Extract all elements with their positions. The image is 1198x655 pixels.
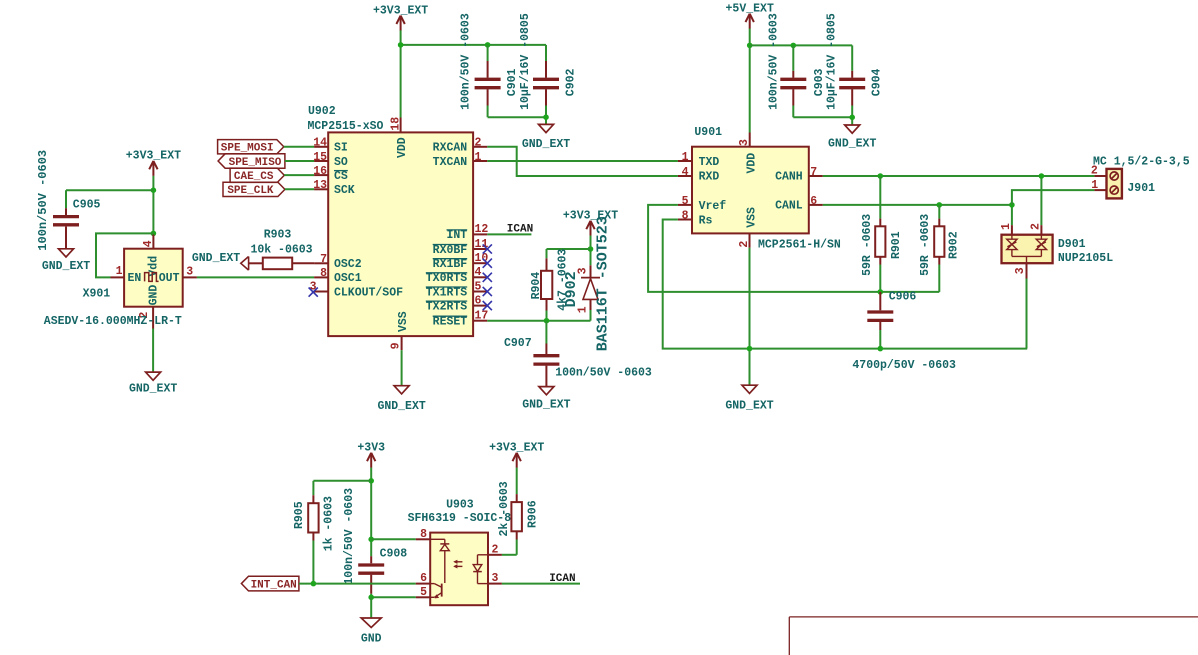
capacitor C903 <box>767 13 825 117</box>
svg-text:RX1BF: RX1BF <box>433 258 468 271</box>
resistor R901 <box>861 176 903 292</box>
junction C904 bottom <box>849 115 855 121</box>
svg-text:7: 7 <box>320 253 327 266</box>
resistor R905 <box>293 495 335 583</box>
wire SPE_MISO to SO <box>285 160 314 162</box>
svg-text:VDD: VDD <box>396 137 409 158</box>
svg-text:VDD: VDD <box>746 153 759 174</box>
junction R905 / INT_CAN row <box>311 581 317 587</box>
svg-text:10µF/16V -0805: 10µF/16V -0805 <box>825 13 838 110</box>
svg-text:RESET: RESET <box>433 316 468 329</box>
svg-text:13: 13 <box>313 179 327 192</box>
junction +5V rail <box>747 43 753 49</box>
svg-text:ICAN: ICAN <box>507 224 533 236</box>
svg-text:5: 5 <box>420 586 427 599</box>
svg-text:100n/50V -0603: 100n/50V -0603 <box>555 367 652 380</box>
wire +5V riser to U901 VDD <box>749 29 751 133</box>
svg-text:TXD: TXD <box>699 156 720 169</box>
wire D901 pin3 to Rs route <box>1026 279 1028 349</box>
wire INT_CAN to pin6 <box>299 583 416 585</box>
wire SPE_CLK to SCK <box>285 188 314 190</box>
net label ICAN (opto) <box>549 573 575 585</box>
global label SPE_MISO <box>218 154 285 169</box>
wire pin3 to ICAN <box>502 583 580 585</box>
svg-text:NUP2105L: NUP2105L <box>1058 252 1113 265</box>
resistor R906 <box>498 481 539 555</box>
svg-text:GND_EXT: GND_EXT <box>377 400 425 413</box>
wire X901 OUT to OSC1 <box>197 276 314 278</box>
wire C903-C904 bottom rail <box>793 116 852 118</box>
svg-text:U901: U901 <box>694 126 722 139</box>
wire CANH row <box>823 175 1095 177</box>
wire RXCAN to RXD <box>487 147 678 176</box>
svg-text:SFH6319 -SOIC-8: SFH6319 -SOIC-8 <box>408 512 512 525</box>
svg-text:3: 3 <box>492 572 499 585</box>
svg-text:10k -0603: 10k -0603 <box>250 244 312 257</box>
diode D902 BAS116T <box>577 265 600 320</box>
junction C908 bottom / pin5 <box>368 595 374 601</box>
junction +3V3_EXT / C905 <box>151 187 157 193</box>
wire CANL row <box>823 204 1012 206</box>
svg-text:SCK: SCK <box>334 184 355 197</box>
svg-text:6: 6 <box>475 294 482 307</box>
svg-text:8: 8 <box>320 267 327 280</box>
resistor R902 <box>919 205 960 292</box>
svg-text:GND_EXT: GND_EXT <box>725 400 773 413</box>
resistor R904 <box>530 249 570 321</box>
wire to GND <box>370 597 372 618</box>
connector J901 <box>1091 165 1122 199</box>
label ASEDV-16.000MHZ-LR-T <box>44 315 182 328</box>
svg-text:U902: U902 <box>308 105 336 118</box>
label NUP2105L <box>1058 252 1113 265</box>
svg-text:C904: C904 <box>870 68 883 96</box>
svg-text:16: 16 <box>313 165 327 178</box>
svg-text:4: 4 <box>475 266 482 279</box>
capacitor C907 <box>504 321 652 387</box>
svg-text:+3V3_EXT: +3V3_EXT <box>373 4 428 17</box>
wire +3V3_EXT to R906 <box>516 468 518 495</box>
capacitor C908 <box>343 488 407 597</box>
svg-text:1: 1 <box>475 151 482 164</box>
no-connect X RX0BF RX1BF TX0RTS TX1RTS TX2RTS <box>483 244 492 310</box>
svg-text:C907: C907 <box>504 337 532 350</box>
label J901 <box>1127 182 1155 195</box>
IC U901 MCP2561-H/SN <box>678 133 823 248</box>
svg-text:R905: R905 <box>293 501 306 529</box>
svg-text:1: 1 <box>1091 179 1098 192</box>
ground GND_EXT (C905) <box>42 249 90 273</box>
svg-text:2k -0603: 2k -0603 <box>498 481 511 536</box>
sheet frame corner <box>789 617 1198 655</box>
svg-text:59R -0603: 59R -0603 <box>919 214 932 276</box>
svg-text:3: 3 <box>738 139 751 146</box>
crystal X901 <box>111 235 197 329</box>
wire Vref route <box>648 205 939 292</box>
ground GND_EXT (U901 VSS) <box>725 385 773 412</box>
svg-text:8: 8 <box>420 528 427 541</box>
junction D902 cathode rail <box>588 246 594 252</box>
svg-text:Vref: Vref <box>699 200 727 213</box>
svg-text:+3V3_EXT: +3V3_EXT <box>489 442 544 455</box>
svg-text:+3V3: +3V3 <box>357 442 385 455</box>
svg-text:59R -0603: 59R -0603 <box>861 214 874 276</box>
net label ICAN (INT) <box>507 224 533 236</box>
wire to C905 <box>66 190 153 208</box>
wire RESET row <box>487 320 590 322</box>
wire pin8 row <box>371 538 416 540</box>
wire +3V3 riser <box>370 468 372 557</box>
wire INT to ICAN <box>487 233 531 235</box>
svg-text:GND_EXT: GND_EXT <box>192 252 240 265</box>
wire C901-C902 bottom rail <box>488 116 546 118</box>
svg-text:TXCAN: TXCAN <box>433 156 468 169</box>
ground GND_EXT (X901) <box>129 372 177 396</box>
svg-text:D902: D902 <box>563 271 580 307</box>
svg-text:ICAN: ICAN <box>549 573 575 585</box>
svg-text:5: 5 <box>475 280 482 293</box>
svg-text:OSC1: OSC1 <box>334 272 362 285</box>
svg-text:12: 12 <box>475 223 489 236</box>
svg-text:EN: EN <box>128 272 142 285</box>
wire +5V top rail <box>750 44 853 46</box>
svg-text:GND_EXT: GND_EXT <box>42 260 90 273</box>
svg-text:INT_CAN: INT_CAN <box>251 579 297 591</box>
global label SPE_MOSI <box>218 140 284 155</box>
svg-text:14: 14 <box>313 137 327 150</box>
wire D901 pin1 to CANL <box>1011 205 1013 225</box>
capacitor C905 <box>36 150 101 251</box>
svg-text:RXCAN: RXCAN <box>433 142 468 155</box>
svg-text:2: 2 <box>475 137 482 150</box>
svg-text:ASEDV-16.000MHZ-LR-T: ASEDV-16.000MHZ-LR-T <box>44 315 182 328</box>
svg-text:CLKOUT/SOF: CLKOUT/SOF <box>334 286 403 299</box>
label U902 <box>308 105 336 118</box>
svg-text:R906: R906 <box>526 500 539 528</box>
svg-text:GND_EXT: GND_EXT <box>129 383 177 396</box>
power +3V3_EXT (R906) <box>489 442 544 468</box>
svg-text:1k -0603: 1k -0603 <box>322 496 335 551</box>
wire R905 branch <box>313 481 371 495</box>
power GND_EXT (left arrow at R903) <box>192 252 249 270</box>
power +5V_EXT <box>726 3 774 29</box>
svg-text:2: 2 <box>492 543 499 556</box>
junction CANL / D901 / J901 riser <box>1009 202 1015 208</box>
svg-text:CAE_CS: CAE_CS <box>234 171 274 183</box>
svg-text:6: 6 <box>420 572 427 585</box>
svg-text:CANL: CANL <box>775 200 803 213</box>
svg-text:R904: R904 <box>530 272 543 300</box>
junction C902 bottom <box>543 114 549 120</box>
svg-text:2: 2 <box>738 241 751 248</box>
svg-text:VSS: VSS <box>397 311 410 332</box>
wire Rs route <box>663 220 1027 349</box>
svg-text:TX2RTS: TX2RTS <box>426 300 468 313</box>
svg-text:SO: SO <box>334 156 348 169</box>
junction X901 EN branch <box>151 231 157 237</box>
wire D901 pin2 to CANH <box>1040 176 1042 225</box>
svg-text:SPE_MOSI: SPE_MOSI <box>221 143 274 155</box>
svg-text:TX1RTS: TX1RTS <box>426 286 468 299</box>
svg-text:5: 5 <box>682 195 689 208</box>
svg-text:MCP2515-xSO: MCP2515-xSO <box>308 120 384 133</box>
svg-text:C908: C908 <box>380 547 408 560</box>
svg-text:GND_EXT: GND_EXT <box>828 137 876 150</box>
svg-text:R901: R901 <box>890 231 903 259</box>
svg-text:+3V3_EXT: +3V3_EXT <box>126 150 181 163</box>
svg-text:C905: C905 <box>73 199 101 212</box>
junction C906 bottom / Rs route <box>878 346 884 352</box>
svg-text:100n/50V -0603: 100n/50V -0603 <box>460 13 473 110</box>
svg-text:SPE_MISO: SPE_MISO <box>229 157 282 169</box>
junction C903 top <box>791 43 797 49</box>
svg-text:9: 9 <box>389 342 402 349</box>
wire +3V3_EXT down to D902 <box>590 236 592 266</box>
svg-text:GND: GND <box>361 632 382 645</box>
power +3V3_EXT (D902) <box>563 210 618 236</box>
svg-text:Rs: Rs <box>699 214 713 227</box>
label U901 <box>694 126 722 139</box>
power +3V3 (opto) <box>357 442 385 468</box>
junction RESET / R904 / C907 <box>544 318 550 324</box>
svg-text:C901: C901 <box>506 68 519 96</box>
IC U902 MCP2515-xSO <box>310 117 489 351</box>
svg-text:CS: CS <box>334 170 348 183</box>
svg-text:U903: U903 <box>446 498 474 511</box>
svg-text:4: 4 <box>142 240 155 247</box>
ground GND_EXT (C907) <box>522 387 570 412</box>
wire VDD riser <box>400 30 402 117</box>
svg-text:R902: R902 <box>947 231 960 259</box>
wire TXCAN to TXD <box>487 160 678 162</box>
label MC 1,5/2-G-3,5 <box>1093 156 1190 169</box>
capacitor C906 <box>852 291 956 372</box>
svg-text:100n/50V -0603: 100n/50V -0603 <box>36 150 50 251</box>
junction CANH / R901 <box>878 173 884 179</box>
ground GND_EXT (U902 VSS) <box>377 386 425 413</box>
ground GND_EXT (C904) <box>828 125 876 150</box>
svg-text:100n/50V -0603: 100n/50V -0603 <box>767 13 780 110</box>
wire X901 GND to ground <box>152 329 154 373</box>
diode D901 NUP2105L <box>1000 223 1053 279</box>
wire pin2 to R906 <box>502 554 517 556</box>
svg-text:GND_EXT: GND_EXT <box>522 138 570 151</box>
svg-text:17: 17 <box>475 310 489 323</box>
wire pin5 row <box>371 596 416 598</box>
global label INT_CAN <box>241 576 299 591</box>
resistor R903 <box>249 228 315 269</box>
svg-text:TX0RTS: TX0RTS <box>426 272 468 285</box>
svg-text:SPE_CLK: SPE_CLK <box>227 185 274 197</box>
power +3V3_EXT (U902 VDD rail) <box>373 4 428 30</box>
junction CANL / R902 <box>937 202 943 208</box>
IC U903 SFH6319 <box>416 528 502 605</box>
svg-text:3: 3 <box>1014 267 1027 274</box>
junction pin8 / C908 top <box>368 537 374 543</box>
svg-text:MC 1,5/2-G-3,5: MC 1,5/2-G-3,5 <box>1093 156 1190 169</box>
svg-text:4700p/50V -0603: 4700p/50V -0603 <box>852 359 956 372</box>
svg-text:GND: GND <box>148 285 161 306</box>
wire EN branch <box>96 233 153 277</box>
svg-text:3: 3 <box>186 265 193 278</box>
ground GND (opto) <box>361 618 382 645</box>
wire J901 pin1 riser <box>1012 190 1095 205</box>
capacitor C904 <box>825 13 883 125</box>
svg-text:1: 1 <box>682 151 689 164</box>
svg-text:C903: C903 <box>813 68 826 96</box>
label MCP2561-H/SN <box>758 238 841 251</box>
svg-text:RXD: RXD <box>699 171 720 184</box>
svg-text:6: 6 <box>810 195 817 208</box>
label SFH6319 -SOIC-8 <box>408 512 512 525</box>
junction VDD rail <box>398 42 404 48</box>
power +3V3_EXT (crystal rail) <box>126 150 181 176</box>
global label CAE_CS <box>230 168 284 183</box>
capacitor C901 <box>460 13 520 117</box>
svg-text:OUT: OUT <box>159 272 180 285</box>
label U903 <box>446 498 474 511</box>
ground GND_EXT (C902) <box>522 124 570 151</box>
svg-text:RX0BF: RX0BF <box>433 244 468 257</box>
svg-text:18: 18 <box>389 117 402 131</box>
global label SPE_CLK <box>223 182 285 197</box>
capacitor C902 <box>519 13 577 124</box>
svg-text:1: 1 <box>116 265 123 278</box>
label D901 <box>1058 238 1086 251</box>
wire CAE_CS to CS <box>284 174 314 176</box>
wire U901 VSS to ground <box>749 248 751 385</box>
svg-text:C906: C906 <box>889 291 917 304</box>
svg-text:R903: R903 <box>264 228 292 241</box>
svg-text:10µF/16V -0805: 10µF/16V -0805 <box>519 13 532 110</box>
svg-text:4: 4 <box>682 166 689 179</box>
svg-text:X901: X901 <box>83 287 111 300</box>
svg-text:SI: SI <box>334 142 348 155</box>
svg-text:8: 8 <box>682 209 689 222</box>
junction C901 top <box>485 42 491 48</box>
svg-text:J901: J901 <box>1127 182 1155 195</box>
label X901 <box>83 287 111 300</box>
svg-text:CANH: CANH <box>775 171 803 184</box>
svg-text:BAS116T -SOT523: BAS116T -SOT523 <box>595 216 612 351</box>
wire U902 VSS to ground <box>401 350 403 386</box>
wire top rail to C901 C902 <box>401 44 546 46</box>
svg-text:C902: C902 <box>565 68 578 96</box>
wire +3V3_EXT to X901 Vdd <box>152 176 154 235</box>
svg-text:INT: INT <box>446 229 467 242</box>
svg-text:100n/50V -0603: 100n/50V -0603 <box>343 488 356 585</box>
svg-text:D901: D901 <box>1058 238 1086 251</box>
no-connect X CLKOUT/SOF <box>309 288 318 297</box>
wire SPE_MOSI to SI <box>284 146 314 148</box>
svg-text:MCP2561-H/SN: MCP2561-H/SN <box>758 238 841 251</box>
label MCP2515-xSO <box>308 120 384 133</box>
label D902 <box>563 271 580 307</box>
svg-text:GND_EXT: GND_EXT <box>522 399 570 412</box>
label BAS116T -SOT523 <box>595 216 612 351</box>
junction CANH / D901 pin2 <box>1039 173 1045 179</box>
wire rail to R904 top <box>547 249 591 258</box>
svg-text:OSC2: OSC2 <box>334 258 362 271</box>
junction VSS / Rs route <box>747 346 753 352</box>
junction Vref route / R901 bottom / C906 <box>878 289 884 295</box>
svg-text:VSS: VSS <box>746 207 759 228</box>
svg-text:7: 7 <box>810 166 817 179</box>
junction +3V3 / R905 branch <box>368 478 374 484</box>
svg-text:15: 15 <box>313 151 327 164</box>
